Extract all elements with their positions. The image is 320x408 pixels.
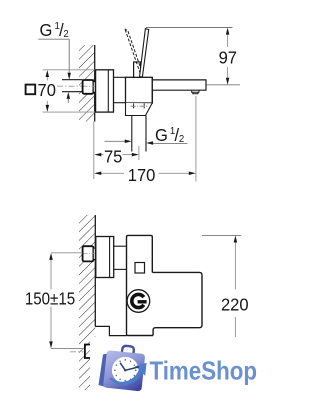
dimension 220 <box>202 234 241 236</box>
logo card shape behind bag <box>99 353 110 387</box>
upper union fitting square <box>83 246 94 261</box>
upper escutcheon (front view) <box>96 237 114 278</box>
spout block protruding right <box>152 272 202 335</box>
spout arm <box>152 80 206 90</box>
outlet detail in trapezoid <box>133 103 135 108</box>
dimension 97: top line from lever tip <box>146 27 233 29</box>
logo clock face <box>112 357 139 384</box>
wall face line lower <box>94 359 96 390</box>
logo bag handle <box>122 346 134 356</box>
leader G1/2 top <box>38 39 69 74</box>
supply pipe stub in wall <box>62 79 83 81</box>
neck between escutcheon and body <box>114 76 126 78</box>
mixer column (right edge open at spout block) <box>127 235 154 335</box>
escutcheon plate (side view) <box>96 70 114 112</box>
mixer body (cartridge housing) <box>126 77 153 103</box>
svg-text:220: 220 <box>221 294 249 315</box>
dimension 97: bottom extension line <box>207 84 241 86</box>
lever handle base <box>134 62 141 77</box>
opposite arrow pointing right at pipe <box>105 140 128 142</box>
bottom outlet stub to wall <box>95 326 127 335</box>
body right edge across arm <box>151 77 153 103</box>
svg-text:170: 170 <box>128 164 156 185</box>
lever handle (solid, up position) <box>140 29 149 77</box>
small square detail on column <box>135 263 145 274</box>
dimension 97: vertical line, arrows, text <box>227 33 229 47</box>
wall hatch (bottom view) <box>79 215 95 390</box>
neck (bottom view) <box>114 245 127 247</box>
svg-text:G1/2: G1/2 <box>40 19 70 40</box>
logo clock hands <box>120 363 125 370</box>
svg-text:150±15: 150±15 <box>25 288 75 309</box>
wall hatch (top view) <box>79 45 95 122</box>
wall face line <box>94 45 96 122</box>
dimension 150±15 <box>51 252 83 254</box>
wall face line upper <box>94 215 96 327</box>
svg-text:75: 75 <box>104 146 122 167</box>
logo bag body <box>103 350 145 391</box>
dimension 75 <box>138 146 140 160</box>
lever handle (dashed, alternate position) <box>125 30 140 73</box>
lower wall fitting bracket <box>85 345 91 359</box>
dimension 70: line and arrows <box>46 76 48 81</box>
leader G1/2 bottom: underline with left arrow <box>151 142 188 144</box>
label square-70 <box>26 85 36 95</box>
logo swoosh arrow <box>109 363 147 385</box>
svg-text:70: 70 <box>38 80 56 101</box>
shower outlet pipe (downwards) <box>131 116 133 152</box>
svg-text:97: 97 <box>219 47 237 68</box>
svg-text:TimeShop: TimeShop <box>149 357 257 386</box>
arrow up at pipe bottom <box>67 92 71 99</box>
pipe centerline <box>57 85 82 87</box>
dimension 70: extension lines <box>43 69 95 71</box>
dimension 170 <box>195 96 197 182</box>
logo clock tick dots <box>114 359 136 382</box>
knob with slot <box>127 290 150 313</box>
body lower trapezoid <box>126 103 153 116</box>
wall extension line (for 75/170 dims) <box>93 122 95 180</box>
escutcheon front edge line <box>107 70 109 112</box>
svg-text:G1/2: G1/2 <box>155 124 185 145</box>
union fitting square (in wall) <box>83 80 94 94</box>
logo white background <box>90 337 272 403</box>
mousseur tab <box>192 90 199 94</box>
